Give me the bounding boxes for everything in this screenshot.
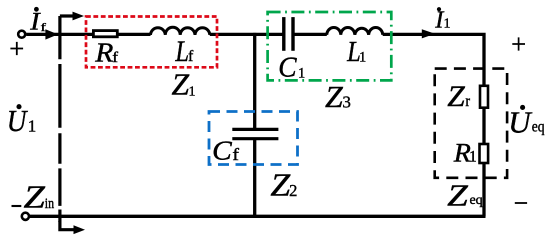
- label Cf: [212, 136, 233, 166]
- svg-text:Z: Z: [171, 67, 189, 102]
- current arrow If: [45, 29, 58, 39]
- label L1: [346, 35, 361, 67]
- svg-text:f: f: [112, 49, 118, 66]
- wire: bottom horizontal: [29, 215, 486, 218]
- svg-text:r: r: [465, 93, 470, 110]
- svg-text:in: in: [45, 195, 55, 212]
- label I1: [434, 7, 445, 34]
- label plus right: [512, 37, 525, 50]
- svg-text:C: C: [278, 51, 297, 82]
- terminal: top-left port: [18, 31, 25, 38]
- svg-text:Z: Z: [447, 80, 465, 113]
- svg-text:f: f: [232, 145, 240, 163]
- Z2 group box (blue dashed): [209, 112, 298, 165]
- svg-text:U: U: [508, 104, 533, 139]
- impedance arrow Zin bottom: [60, 221, 77, 230]
- label Z1: [171, 67, 189, 102]
- wire: top horizontal between C1 and L1: [293, 33, 327, 36]
- svg-text:3: 3: [342, 93, 351, 112]
- label Zin: [23, 180, 45, 215]
- svg-text:1: 1: [189, 84, 196, 99]
- label Z2: [270, 168, 290, 203]
- impedance arrow Zin top: [60, 14, 76, 17]
- Zeq group box (black dashed): [435, 69, 507, 178]
- svg-text:C: C: [212, 136, 233, 166]
- label R1: [453, 138, 472, 167]
- svg-text:2: 2: [289, 181, 297, 200]
- label plus left: [10, 42, 23, 55]
- svg-text:1: 1: [444, 17, 451, 32]
- label minus left: [12, 205, 22, 207]
- capacitor Cf: [232, 129, 278, 138]
- svg-text:Z: Z: [270, 168, 290, 203]
- label U1: [7, 104, 28, 138]
- resistor Rf: [93, 31, 117, 37]
- svg-text:eq: eq: [469, 193, 482, 208]
- svg-text:eq: eq: [532, 118, 545, 135]
- label If: [29, 7, 41, 35]
- svg-text:Z: Z: [325, 79, 343, 113]
- label Rf: [94, 38, 113, 67]
- wire: middle branch upper: [253, 33, 256, 128]
- capacitor C1: [284, 17, 293, 51]
- label Ueq: [508, 104, 533, 139]
- wire: top horizontal between Lf and C1: [210, 33, 284, 36]
- svg-text:R: R: [94, 38, 113, 67]
- svg-text:1: 1: [469, 148, 477, 165]
- wire: top right segment with corner into right vertical: [383, 34, 484, 216]
- wire: middle branch lower: [253, 140, 256, 216]
- inductor Lf: [151, 27, 210, 35]
- label Z3: [325, 79, 343, 113]
- svg-text:1: 1: [298, 65, 305, 81]
- svg-text:1: 1: [359, 50, 366, 66]
- Z3 group box (green dash-dot): [268, 12, 392, 80]
- svg-text:1: 1: [28, 116, 37, 135]
- wire: top horizontal left segment: [26, 33, 150, 36]
- svg-text:U: U: [7, 104, 28, 138]
- inductor L1: [327, 27, 383, 34]
- label C1: [278, 51, 297, 82]
- label Lf: [174, 35, 189, 68]
- svg-text:Z: Z: [23, 180, 45, 215]
- label minus right: [515, 202, 527, 204]
- current arrow I1: [422, 29, 435, 38]
- impedance element Zr: [480, 86, 488, 108]
- svg-text:Z: Z: [447, 178, 469, 212]
- resistor R1: [480, 144, 489, 163]
- label Zeq: [447, 178, 469, 212]
- terminal: bottom-left port: [22, 213, 29, 220]
- svg-text:f: f: [40, 21, 46, 34]
- Z1 group box (red dashed): [86, 17, 217, 68]
- svg-text:L: L: [174, 35, 189, 68]
- label Zr: [447, 80, 465, 113]
- impedance line Zin (dashed vertical): [58, 16, 61, 222]
- svg-text:f: f: [188, 48, 194, 65]
